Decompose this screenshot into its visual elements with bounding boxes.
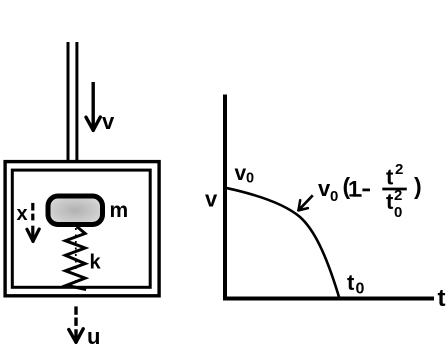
x-axis	[223, 297, 434, 301]
svg-text:v: v	[235, 162, 247, 185]
svg-text:v: v	[102, 109, 115, 134]
svg-text:0: 0	[330, 188, 338, 205]
mass m (rounded block)	[48, 196, 103, 225]
svg-text:t: t	[347, 270, 355, 295]
svg-text:1: 1	[348, 177, 360, 202]
dashed arrow u	[69, 306, 83, 342]
svg-text:u: u	[87, 324, 100, 349]
svg-text:k: k	[90, 252, 102, 274]
outer box	[5, 162, 159, 296]
formula v0(1 - t^2/t0^2)	[318, 161, 422, 221]
svg-text:t: t	[438, 285, 446, 312]
svg-text:0: 0	[246, 171, 254, 187]
spring k	[65, 227, 86, 290]
arrow v (downward velocity arrow)	[86, 82, 100, 130]
svg-text:0: 0	[394, 204, 402, 221]
y-axis	[223, 95, 227, 301]
svg-text:m: m	[110, 199, 129, 222]
svg-text:t: t	[386, 165, 394, 190]
rod (double vertical line)	[68, 42, 77, 162]
dashed arrow x	[27, 203, 39, 241]
svg-text:t: t	[386, 189, 394, 214]
label t0	[347, 270, 365, 298]
svg-text:0: 0	[356, 281, 365, 298]
velocity curve	[226, 188, 340, 297]
svg-text:2: 2	[395, 161, 403, 178]
svg-text:): )	[414, 173, 422, 199]
svg-text:x: x	[17, 203, 28, 225]
svg-text:v: v	[205, 187, 218, 212]
inner box	[12, 170, 150, 287]
svg-text:2: 2	[394, 187, 402, 204]
annotation arrow to curve	[298, 195, 312, 210]
label v0	[235, 162, 255, 187]
